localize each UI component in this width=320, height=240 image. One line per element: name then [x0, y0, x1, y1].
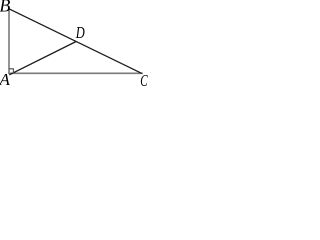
svg-text:C: C: [140, 71, 148, 88]
wire side BC (hypotenuse): [9, 9, 142, 73]
svg-text:A: A: [0, 70, 11, 88]
svg-text:D: D: [75, 23, 85, 42]
wire segment AD (cevian from A to D on BC): [9, 42, 76, 75]
svg-text:B: B: [0, 0, 10, 16]
wire side AC (horizontal bottom side): [8, 72, 143, 74]
right-angle marker at A: [9, 69, 13, 74]
wire side AB (vertical left side): [8, 9, 10, 74]
